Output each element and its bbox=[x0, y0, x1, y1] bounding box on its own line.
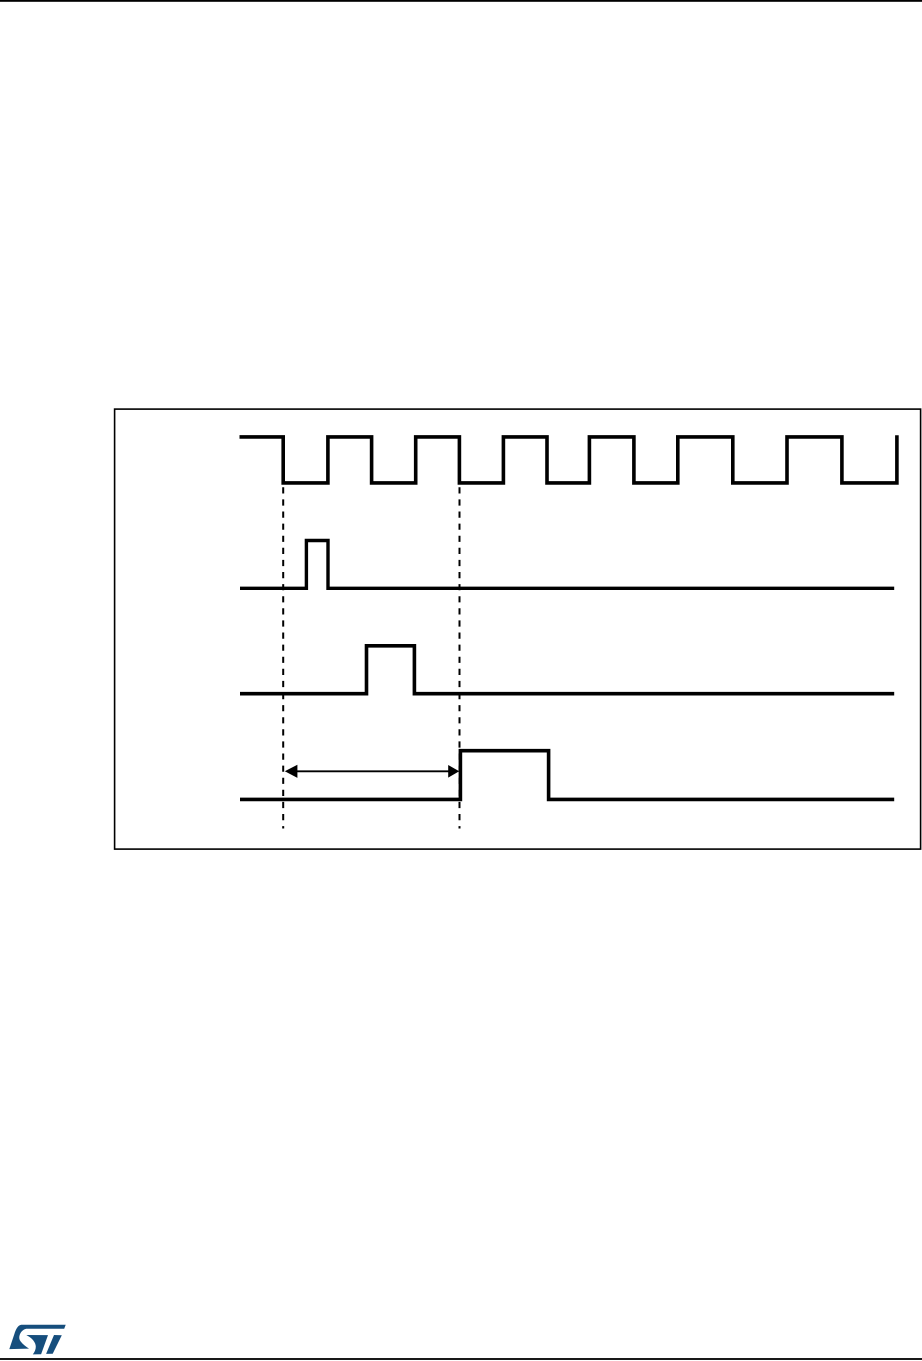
right arrowhead bbox=[448, 765, 459, 778]
ST logo S lower stroke (funnel) bbox=[26, 1335, 48, 1354]
left arrowhead bbox=[285, 765, 298, 778]
figure frame bbox=[115, 409, 921, 849]
signal trace 3 with medium pulse bbox=[240, 646, 894, 694]
ST logo swoosh (top bar, left stroke, bottom triangle) bbox=[9, 1325, 65, 1349]
signal trace 2 with narrow pulse bbox=[240, 541, 894, 589]
footer rule bbox=[0, 1358, 922, 1360]
dashed cursor line 1 bbox=[282, 487, 284, 828]
dashed cursor line 2 bbox=[459, 487, 461, 828]
delay measurement arrow shaft bbox=[296, 770, 450, 772]
ST logo bbox=[9, 1325, 65, 1355]
clock waveform CK bbox=[240, 435, 897, 483]
header rule bbox=[0, 0, 922, 2]
ST logo T stem bbox=[46, 1335, 62, 1354]
signal trace 4 with wide pulse bbox=[240, 751, 894, 800]
